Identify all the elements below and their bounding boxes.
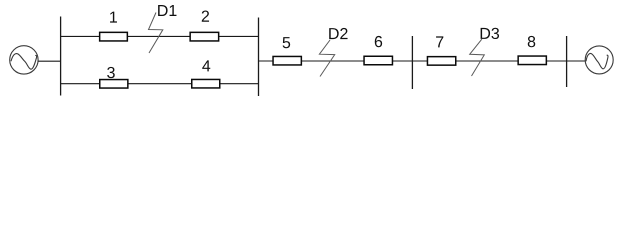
resistor 8	[518, 56, 546, 65]
resistor 7	[427, 57, 455, 66]
bus 3	[411, 36, 413, 89]
label 4	[202, 60, 210, 71]
fault bolt D3	[470, 39, 485, 76]
resistor 5	[273, 56, 301, 64]
resistor 2	[190, 32, 219, 41]
label D2	[329, 28, 347, 39]
wire G1 to bus1	[38, 60, 60, 62]
label 1	[110, 12, 117, 23]
wire bottom branch	[61, 83, 259, 85]
bus 1	[60, 17, 62, 96]
generator G1	[10, 46, 38, 74]
bus 4	[566, 36, 568, 87]
generator G2	[585, 46, 613, 74]
resistor 3	[100, 80, 128, 89]
label 7	[436, 36, 443, 47]
fault bolt D1	[149, 13, 163, 54]
label 2	[202, 11, 209, 22]
resistor 1	[100, 32, 128, 41]
resistor 4	[192, 79, 220, 88]
label 6	[375, 36, 382, 47]
bus 2	[258, 18, 260, 97]
label D1	[158, 5, 176, 16]
label D3	[481, 28, 499, 39]
resistor 6	[364, 56, 392, 65]
wire middle line	[259, 60, 586, 62]
fault bolt D2	[319, 40, 334, 77]
label 5	[283, 37, 291, 48]
label 8	[528, 36, 536, 47]
wire top branch	[61, 35, 259, 37]
label 3	[107, 67, 115, 78]
